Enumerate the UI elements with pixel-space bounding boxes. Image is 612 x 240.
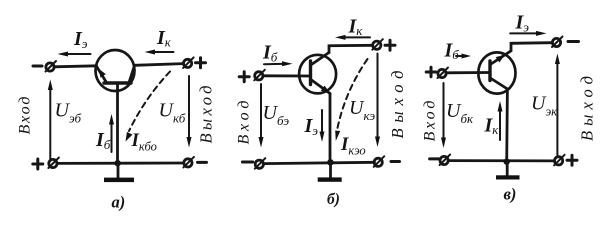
dashed leakage current curve I_kbo [126, 72, 171, 142]
wire bottom common [263, 162, 374, 163]
current arrow I_k (left) [335, 35, 370, 40]
svg-text:б): б) [327, 191, 340, 208]
svg-text:Uэк: Uэк [531, 93, 558, 119]
svg-text:Iб: Iб [95, 129, 111, 152]
plus sign at top-right terminal [196, 58, 206, 68]
wire collector lead down [505, 89, 508, 162]
node junction dot [327, 159, 333, 165]
current arrow I_k collector [145, 50, 174, 55]
terminal output top-right [552, 37, 563, 48]
wire base from terminal [446, 71, 488, 74]
minus sign at bottom-left terminal [242, 161, 252, 164]
terminal output bottom-right [183, 157, 194, 168]
transistor VT3 collector diagonal [491, 79, 508, 90]
svg-text:Uкэ: Uкэ [349, 97, 375, 123]
transistor VT2 circle [299, 55, 336, 94]
transistor VT3 base bar [488, 61, 491, 81]
svg-text:Iб: Iб [262, 42, 278, 65]
ground [318, 162, 342, 181]
svg-text:Iб: Iб [444, 39, 460, 62]
minus sign at bottom-right terminal [198, 161, 207, 164]
transistor VT2 base bar [309, 61, 312, 85]
dashed leakage current curve I_keo [335, 59, 367, 141]
terminal input bottom-left [48, 158, 59, 169]
terminal bottom-right [374, 156, 385, 167]
svg-text:Uбэ: Uбэ [263, 102, 290, 128]
terminal input left [254, 70, 264, 81]
wire base lead VT1 [116, 85, 119, 163]
wire top-left emitter [55, 66, 97, 67]
terminal output top-right [183, 57, 194, 68]
transistor VT2 emitter diagonal with arrow [312, 80, 331, 94]
terminal bottom-left [440, 155, 451, 166]
svg-text:а): а) [112, 193, 126, 212]
plus sign at bottom-right terminal [567, 155, 577, 165]
terminal input top-left [46, 61, 57, 72]
wire collector up and top [329, 45, 373, 52]
terminal bottom-left [255, 158, 265, 169]
current arrow I_b small (right) [456, 54, 471, 59]
transistor VT1 circle [96, 50, 135, 91]
wire bottom common [57, 162, 184, 165]
voltage arrow U_ke (down) [375, 54, 380, 148]
wire base from terminal [263, 74, 310, 77]
terminal bottom-right [554, 155, 565, 166]
minus sign at top-right terminal [568, 40, 579, 43]
transistor VT1 base bar [104, 81, 131, 84]
voltage arrow U_kb (down) [187, 76, 192, 148]
svg-text:Выход: Выход [197, 86, 216, 144]
current arrow I_b (right) [264, 61, 293, 66]
svg-text:в): в) [504, 185, 517, 204]
ground [496, 162, 520, 180]
current arrow I_e (down) [320, 110, 325, 142]
plus sign at left terminal [426, 67, 436, 77]
current arrow I_e emitter [58, 52, 91, 57]
minus sign at bottom-left terminal [430, 157, 440, 160]
ground [104, 163, 134, 182]
terminal input left [438, 68, 449, 79]
svg-text:Iк: Iк [156, 27, 172, 50]
wire bottom common [448, 159, 554, 162]
svg-text:Выход: Выход [388, 71, 407, 139]
svg-text:Iк: Iк [484, 115, 500, 138]
node junction dot [504, 158, 510, 164]
minus sign at top-left terminal [33, 65, 42, 68]
plus sign at bottom-left terminal [33, 159, 43, 169]
transistor VT1 collector diagonal [129, 66, 135, 83]
svg-text:Iкэо: Iкэо [340, 134, 366, 158]
svg-text:Iэ: Iэ [304, 115, 319, 138]
plus sign at left terminal [239, 72, 249, 82]
transistor VT3 emitter diagonal with arrow [491, 51, 511, 64]
svg-text:Iэ: Iэ [515, 11, 530, 34]
svg-text:Выход: Выход [578, 76, 597, 141]
wire emitter up and top [511, 43, 552, 51]
svg-text:Вход: Вход [236, 101, 253, 145]
node junction dot [114, 160, 120, 166]
svg-text:Iкбо: Iкбо [131, 130, 157, 154]
voltage arrow U_bk (down) [441, 83, 446, 148]
svg-text:Uкб: Uкб [159, 100, 186, 126]
current arrow I_e (right) [510, 31, 546, 36]
transistor VT3 circle [478, 52, 515, 93]
svg-text:Uбк: Uбк [446, 100, 474, 126]
voltage arrow U_ek (up) [555, 54, 560, 156]
plus sign at top-right terminal [385, 40, 395, 50]
transistor VT1 emitter diagonal with arrow [96, 66, 106, 83]
terminal output top-right [372, 39, 383, 50]
voltage arrow U_be (down) [259, 84, 264, 148]
minus sign at bottom-right terminal [391, 160, 400, 163]
svg-text:Iэ: Iэ [73, 28, 88, 51]
svg-text:Iк: Iк [348, 16, 364, 39]
svg-text:Вход: Вход [422, 101, 439, 142]
transistor VT2 collector diagonal [312, 53, 330, 65]
wire emitter lead down [329, 94, 332, 163]
svg-text:Вход: Вход [17, 97, 34, 135]
svg-text:Uэб: Uэб [55, 100, 82, 126]
voltage arrow U_eb (up) [48, 80, 53, 160]
current arrow I_b base (up) [109, 114, 114, 152]
current arrow I_k (up) [498, 101, 503, 140]
wire top-right collector [135, 64, 184, 66]
